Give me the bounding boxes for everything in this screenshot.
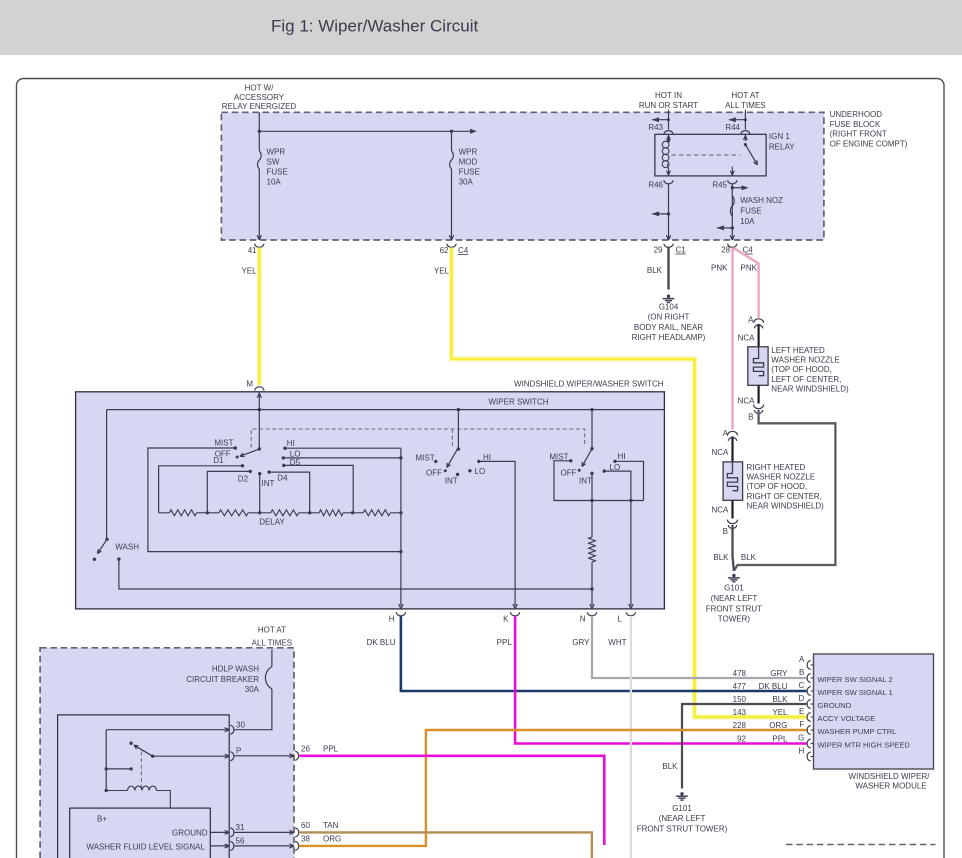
svg-text:CIRCUIT BREAKER: CIRCUIT BREAKER <box>186 675 259 684</box>
group2 contacts <box>434 460 437 463</box>
svg-text:(RIGHT FRONT: (RIGHT FRONT <box>830 130 887 139</box>
washer pump motor box B+ <box>70 808 211 858</box>
svg-text:WASHER PUMP CTRL: WASHER PUMP CTRL <box>818 727 897 736</box>
windshield wiper/washer switch box <box>76 392 665 609</box>
svg-text:C1: C1 <box>676 246 687 255</box>
wire L output <box>630 501 632 607</box>
wire MIST-3 to group3 rail <box>554 461 644 501</box>
svg-text:B: B <box>723 527 728 536</box>
wire INT-3 down <box>591 473 593 500</box>
ground G104 <box>667 295 670 298</box>
relay switch <box>744 134 746 141</box>
connector R46 <box>664 180 673 184</box>
svg-text:WPR: WPR <box>267 148 286 157</box>
svg-text:NEAR WINDSHIELD): NEAR WINDSHIELD) <box>747 501 825 510</box>
svg-text:OF ENGINE COMPT): OF ENGINE COMPT) <box>830 139 908 148</box>
wire wash output to N <box>117 557 120 560</box>
svg-text:60: 60 <box>301 821 310 830</box>
svg-text:ACCY VOLTAGE: ACCY VOLTAGE <box>818 714 876 723</box>
svg-text:R45: R45 <box>712 181 727 190</box>
title bar <box>0 0 962 55</box>
switch outputs H K N L <box>401 604 403 609</box>
svg-text:(ON RIGHT: (ON RIGHT <box>648 313 690 322</box>
wire: bus to WPR MOD fuse with arrow <box>259 130 474 132</box>
connector A (right nozzle) <box>728 431 738 435</box>
svg-text:K: K <box>503 615 509 624</box>
wire BLK pin29 to G104 <box>667 248 669 290</box>
svg-text:HI: HI <box>287 439 295 448</box>
svg-text:RIGHT OF CENTER,: RIGHT OF CENTER, <box>747 492 822 501</box>
svg-text:D1: D1 <box>213 456 224 465</box>
washer pump dashed box <box>40 648 294 858</box>
wire: WPR SW FUSE feed <box>258 112 260 151</box>
svg-text:26: 26 <box>301 745 310 754</box>
svg-text:HOT AT: HOT AT <box>258 625 286 634</box>
svg-text:ALL TIMES: ALL TIMES <box>252 639 292 648</box>
svg-text:NCA: NCA <box>712 506 730 515</box>
wire: R45 to pin 28 via WASH NOZ FUSE <box>731 184 733 241</box>
svg-text:B: B <box>748 413 753 422</box>
svg-text:143: 143 <box>733 708 747 717</box>
wire ORG washer pump to module F <box>300 730 807 846</box>
pin 28 / C4 <box>728 244 737 248</box>
pump relay coil <box>105 789 108 792</box>
svg-text:R44: R44 <box>725 123 740 132</box>
svg-text:OFF: OFF <box>426 468 442 477</box>
svg-text:(TOP OF HOOD,: (TOP OF HOOD, <box>771 365 832 374</box>
wire: IGN1 relay switch feed (R44) <box>744 110 746 113</box>
pump relay dashed actuator <box>140 752 142 790</box>
svg-text:C4: C4 <box>458 246 469 255</box>
svg-text:GROUND: GROUND <box>172 828 208 837</box>
svg-text:PPL: PPL <box>772 735 788 744</box>
svg-text:FUSE: FUSE <box>267 168 288 177</box>
svg-text:G101: G101 <box>672 804 692 813</box>
svg-text:BODY RAIL, NEAR: BODY RAIL, NEAR <box>634 323 703 332</box>
wire D4 to delay rail <box>269 472 310 513</box>
connector A (left nozzle) <box>754 319 764 323</box>
svg-text:BLK: BLK <box>772 695 788 704</box>
svg-text:D4: D4 <box>277 474 288 483</box>
wire HI-3 to group3 rail <box>615 461 644 500</box>
svg-text:28: 28 <box>721 246 730 255</box>
svg-text:DK BLU: DK BLU <box>367 638 396 647</box>
svg-text:PPL: PPL <box>323 745 339 754</box>
svg-text:41: 41 <box>248 246 257 255</box>
svg-text:G104: G104 <box>659 302 679 311</box>
svg-text:ORG: ORG <box>769 721 787 730</box>
svg-text:WHT: WHT <box>608 638 626 647</box>
svg-text:H: H <box>799 746 805 755</box>
delay resistor chain <box>159 512 170 514</box>
pin 29 / C1 <box>664 244 673 248</box>
wire MIST to H rail <box>148 448 401 552</box>
svg-text:92: 92 <box>737 735 746 744</box>
svg-text:E: E <box>799 707 804 716</box>
wire left nozzle B to G101 <box>734 410 836 571</box>
svg-text:NCA: NCA <box>712 448 730 457</box>
relay dashed actuator <box>672 154 741 156</box>
svg-text:HOT IN: HOT IN <box>655 91 682 100</box>
svg-text:NCA: NCA <box>738 397 756 406</box>
wire D5 to delay rail <box>284 465 353 512</box>
svg-text:NEAR WINDSHIELD): NEAR WINDSHIELD) <box>771 384 849 393</box>
svg-text:BLK: BLK <box>662 762 678 771</box>
wire DK BLU H to module C <box>401 616 807 691</box>
wire: R46 to pin 29 <box>668 184 670 241</box>
wire LO-3 to group3 rail <box>604 471 631 500</box>
svg-text:(NEAR LEFT: (NEAR LEFT <box>711 594 758 603</box>
circuit breaker HDLP WASH 30A <box>271 650 273 667</box>
wire LO-1 to H rail <box>283 457 401 459</box>
svg-text:Fig 1: Wiper/Washer Circuit: Fig 1: Wiper/Washer Circuit <box>271 17 478 36</box>
svg-text:10A: 10A <box>267 178 282 187</box>
svg-text:WIPER SW SIGNAL 2: WIPER SW SIGNAL 2 <box>818 675 893 684</box>
ground G101 (nozzles) <box>732 574 735 577</box>
svg-text:WINDSHIELD WIPER/: WINDSHIELD WIPER/ <box>849 772 931 781</box>
svg-text:P: P <box>236 747 241 756</box>
svg-text:HOT W/: HOT W/ <box>245 83 275 92</box>
svg-text:G: G <box>798 733 804 742</box>
svg-text:(NEAR LEFT: (NEAR LEFT <box>659 814 706 823</box>
svg-text:D: D <box>799 694 805 703</box>
fuse WASH NOZ FUSE 10A <box>730 196 734 216</box>
left heated washer nozzle <box>748 347 768 386</box>
svg-text:B: B <box>799 668 804 677</box>
svg-text:INT: INT <box>579 476 592 485</box>
svg-text:H: H <box>389 615 395 624</box>
svg-text:38: 38 <box>301 835 310 844</box>
wire right nozzle B to G101 <box>733 525 734 571</box>
svg-text:WASH NOZ: WASH NOZ <box>740 196 783 205</box>
wire YEL pin41 to switch M <box>257 248 262 386</box>
pump pin P wire <box>153 755 230 757</box>
connector B (left nozzle) <box>754 405 764 409</box>
svg-text:WIPER SW SIGNAL 1: WIPER SW SIGNAL 1 <box>818 688 893 697</box>
svg-text:D2: D2 <box>238 475 249 484</box>
svg-text:RIGHT HEADLAMP): RIGHT HEADLAMP) <box>632 333 706 342</box>
svg-text:DELAY: DELAY <box>259 517 285 526</box>
svg-text:(TOP OF HOOD,: (TOP OF HOOD, <box>747 482 808 491</box>
svg-text:WASHER NOZZLE: WASHER NOZZLE <box>747 473 816 482</box>
washer pump inner box <box>58 715 230 858</box>
relay coil <box>668 134 670 141</box>
group3 contacts <box>569 459 572 462</box>
svg-text:G101: G101 <box>724 584 744 593</box>
underhood fuse block (dashed box) <box>221 112 824 240</box>
svg-text:WASHER NOZZLE: WASHER NOZZLE <box>771 356 840 365</box>
svg-text:WIPER SWITCH: WIPER SWITCH <box>489 397 549 406</box>
svg-text:29: 29 <box>654 246 663 255</box>
pump external rows to dashed-edge pins 26/60/38 <box>235 755 295 757</box>
svg-text:477: 477 <box>733 682 747 691</box>
dashed box bottom right (cut off) <box>786 844 936 846</box>
wire PNK pin28 to right nozzle A <box>731 248 733 430</box>
connector B (right nozzle) <box>728 520 738 524</box>
svg-text:YEL: YEL <box>434 267 450 276</box>
svg-text:PPL: PPL <box>497 638 513 647</box>
svg-text:INT: INT <box>445 476 458 485</box>
connector R45 <box>728 180 737 184</box>
svg-text:A: A <box>799 655 805 664</box>
svg-text:L: L <box>618 615 623 624</box>
svg-text:OFF: OFF <box>561 468 577 477</box>
wash switch <box>105 538 108 541</box>
pump relay contact and arm <box>129 742 132 745</box>
svg-text:31: 31 <box>236 823 245 832</box>
svg-text:TOWER): TOWER) <box>718 615 751 624</box>
resistor on INT-3 / N output <box>591 501 593 538</box>
svg-text:BLK: BLK <box>741 553 757 562</box>
svg-text:FUSE: FUSE <box>459 168 480 177</box>
wire GRY N to module B <box>592 616 807 678</box>
svg-text:FUSE BLOCK: FUSE BLOCK <box>830 120 881 129</box>
svg-text:WPR: WPR <box>459 148 478 157</box>
wire PNK pin28 to left nozzle A <box>734 248 759 318</box>
svg-text:GROUND: GROUND <box>818 701 852 710</box>
svg-text:RIGHT HEATED: RIGHT HEATED <box>747 463 806 472</box>
module pins A-H <box>807 661 811 670</box>
connector R43 <box>664 131 673 135</box>
ground G101 (module) <box>680 792 683 795</box>
svg-text:B+: B+ <box>97 815 107 824</box>
wire: WPR MOD fuse drop <box>451 131 453 151</box>
svg-text:BLK: BLK <box>647 266 663 275</box>
svg-text:LO: LO <box>290 449 301 458</box>
svg-text:HDLP WASH: HDLP WASH <box>212 665 259 674</box>
group1 contacts <box>234 446 237 449</box>
svg-text:INT: INT <box>262 479 275 488</box>
wire PPL K to module G <box>515 616 806 744</box>
svg-text:SW: SW <box>267 158 280 167</box>
svg-text:MIST: MIST <box>549 452 568 461</box>
svg-text:FRONT STRUT: FRONT STRUT <box>706 604 762 613</box>
svg-text:HOT AT: HOT AT <box>731 91 759 100</box>
svg-text:HI: HI <box>483 453 491 462</box>
svg-text:YEL: YEL <box>241 267 257 276</box>
wire D2 to delay rail <box>207 471 250 512</box>
wire HI-1 / H output <box>285 448 401 606</box>
svg-text:DK BLU: DK BLU <box>759 682 788 691</box>
svg-text:WASH: WASH <box>115 543 139 552</box>
wire TAN washer pump down <box>300 832 592 858</box>
wire INT-1 to delay rail <box>259 474 261 513</box>
wire PPL washer pump 26 <box>300 756 605 845</box>
svg-text:56: 56 <box>236 837 245 846</box>
svg-text:MOD: MOD <box>459 158 478 167</box>
svg-text:150: 150 <box>733 695 747 704</box>
svg-text:NCA: NCA <box>738 334 756 343</box>
connector R44 <box>741 131 750 135</box>
svg-text:UNDERHOOD: UNDERHOOD <box>830 110 883 119</box>
pin 41 <box>255 244 264 248</box>
wire WHT L down <box>630 616 632 858</box>
svg-text:ORG: ORG <box>323 835 341 844</box>
svg-text:RELAY ENERGIZED: RELAY ENERGIZED <box>222 102 297 111</box>
svg-text:A: A <box>723 429 729 438</box>
svg-text:30A: 30A <box>245 685 260 694</box>
svg-text:FUSE: FUSE <box>740 206 761 215</box>
fuse WPR SW FUSE 10A <box>258 151 262 169</box>
wire HI-2 / K output <box>479 461 515 606</box>
connector M <box>255 387 264 391</box>
svg-text:YEL: YEL <box>772 708 788 717</box>
fuse WPR MOD FUSE 30A <box>450 151 454 169</box>
svg-text:TAN: TAN <box>323 821 339 830</box>
wire BLK module D to G101 <box>682 704 807 789</box>
svg-text:228: 228 <box>733 721 747 730</box>
wire D1 to delay rail <box>159 466 243 513</box>
svg-text:LO: LO <box>475 467 486 476</box>
svg-text:MIST: MIST <box>415 453 434 462</box>
svg-text:PNK: PNK <box>741 263 758 272</box>
svg-text:WIPER MTR HIGH SPEED: WIPER MTR HIGH SPEED <box>818 740 911 749</box>
svg-text:WINDSHIELD WIPER/WASHER SWITCH: WINDSHIELD WIPER/WASHER SWITCH <box>514 380 664 389</box>
svg-text:478: 478 <box>733 669 747 678</box>
svg-text:FRONT STRUT TOWER): FRONT STRUT TOWER) <box>637 824 728 833</box>
svg-text:LEFT OF CENTER,: LEFT OF CENTER, <box>771 375 841 384</box>
svg-text:WASHER FLUID LEVEL SIGNAL: WASHER FLUID LEVEL SIGNAL <box>86 842 205 851</box>
svg-text:RUN OR START: RUN OR START <box>639 101 698 110</box>
svg-text:ALL TIMES: ALL TIMES <box>725 101 765 110</box>
svg-text:62: 62 <box>440 246 449 255</box>
svg-text:HI: HI <box>618 452 626 461</box>
svg-text:PNK: PNK <box>711 263 728 272</box>
svg-text:30: 30 <box>236 720 245 729</box>
svg-text:R46: R46 <box>648 181 663 190</box>
svg-text:GRY: GRY <box>572 638 590 647</box>
wire YEL pin62 to module pin E <box>452 248 807 718</box>
svg-text:10A: 10A <box>740 217 755 226</box>
svg-text:30A: 30A <box>459 178 474 187</box>
svg-text:A: A <box>748 316 754 325</box>
switch group 3 pole and arm <box>591 410 593 449</box>
svg-text:GRY: GRY <box>770 669 788 678</box>
svg-text:ACCESSORY: ACCESSORY <box>234 93 285 102</box>
svg-text:IGN 1: IGN 1 <box>769 132 790 141</box>
switch group 1 (delay) pole and arm <box>258 447 261 450</box>
svg-text:BLK: BLK <box>713 553 729 562</box>
right heated washer nozzle <box>723 462 743 500</box>
wire: IGN1 relay coil feed (R43) <box>668 110 670 113</box>
pump relay left leg <box>105 730 107 791</box>
windshield wiper/washer module box <box>814 654 934 769</box>
pump pin 30 wire <box>106 729 229 731</box>
svg-text:R43: R43 <box>648 123 663 132</box>
svg-text:RELAY: RELAY <box>769 142 795 151</box>
svg-text:N: N <box>580 615 586 624</box>
svg-text:C: C <box>799 681 805 690</box>
relay IGN 1 RELAY <box>655 134 766 176</box>
inner rail / wiper switch top <box>107 409 665 411</box>
pin 62 / C4 <box>447 244 456 248</box>
svg-text:F: F <box>799 720 804 729</box>
svg-text:WASHER MODULE: WASHER MODULE <box>855 782 926 791</box>
svg-text:MIST: MIST <box>214 438 233 447</box>
switch group 2 pole and arm <box>457 410 459 450</box>
wire M pole feed <box>257 393 259 398</box>
svg-text:LEFT HEATED: LEFT HEATED <box>771 346 825 355</box>
svg-text:M: M <box>246 379 253 388</box>
dashed mechanical linkage <box>251 429 585 448</box>
